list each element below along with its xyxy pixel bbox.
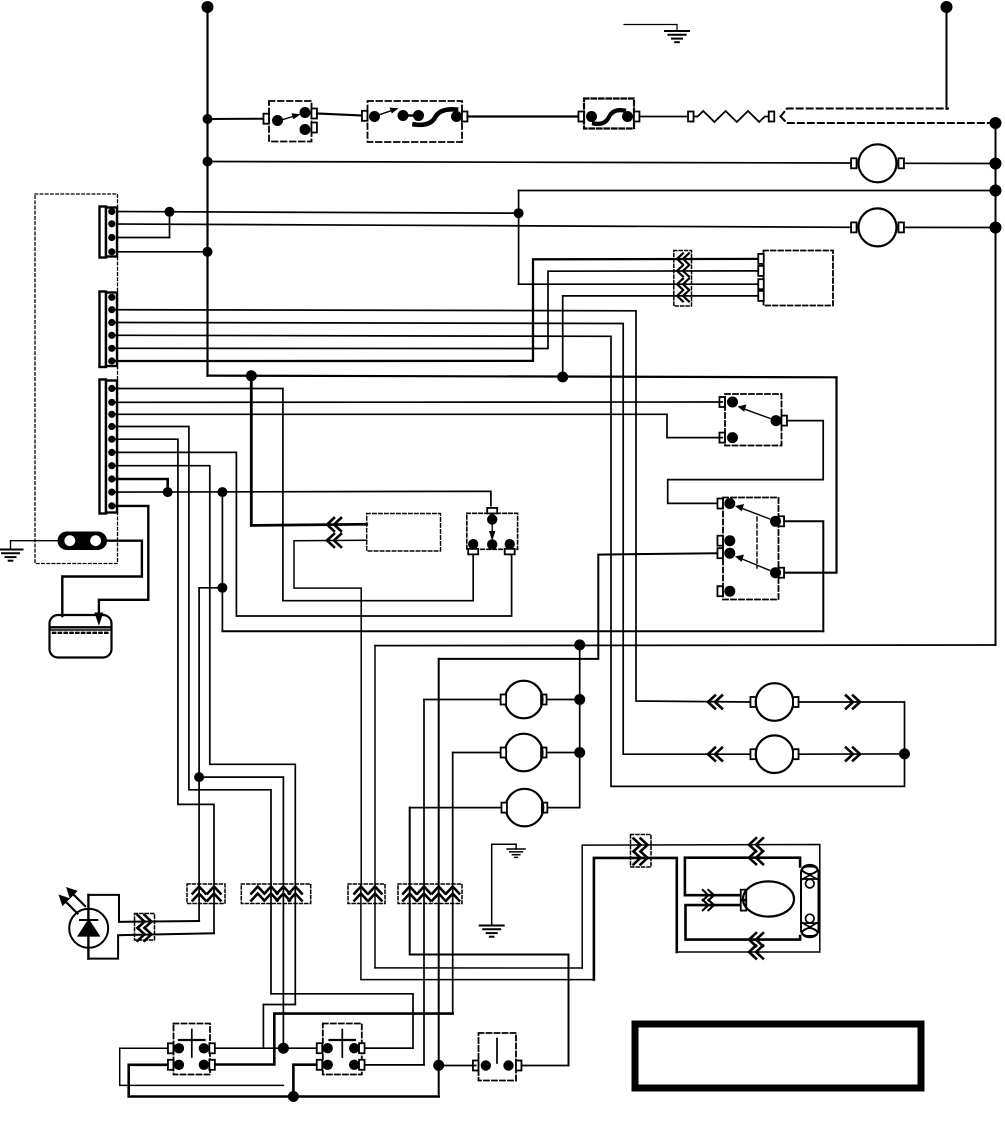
lamp L1 [424,681,580,719]
connector box CN5 (pair) [348,884,385,904]
node top right dot [941,1,953,13]
wire strip1 pin4 to bus [112,251,208,253]
wire v375 drop [374,646,376,968]
lamp L2 [453,734,580,772]
connector strip J3 [100,380,118,514]
wire B3 right [522,1065,569,1067]
connector strip J1 [100,207,118,258]
fuse F1 [58,532,108,551]
wire strip2 pin4 loop [112,335,905,786]
circuit breaker CB1 [578,99,639,129]
node dot pin9 drop [217,487,227,497]
wire trio3 to B1UR overpass [263,1005,295,1049]
wire B3 left [439,1065,476,1067]
wire lamp3 left drop [410,808,569,1066]
wire S4 right contact down to headlight line [784,521,823,631]
wire CB1 to resistor [640,116,689,118]
switch B1 [168,1024,215,1075]
lamp L3 [410,789,580,827]
connector box CN4 (trio) [241,884,310,904]
node bus junction motor A row [203,157,213,167]
wire fuse to tank [62,541,142,616]
wire bus horizontal 377 [208,376,837,378]
connector box CN3 (LED pair) [187,884,225,904]
wire pin9 chain drop [221,492,223,631]
wire row y190 [519,190,996,192]
wire lamp feed y645 [375,644,996,647]
tank washer reservoir [50,615,112,658]
control module dotted boundary [35,194,118,564]
wire A thin loop [582,845,820,969]
ground G4 small [515,844,517,849]
wire lamp2 left drop [452,753,454,1014]
node dot pin1/pin3 riser [165,207,175,217]
wire strip3 pin3 to S3 lower [112,414,722,437]
wire bus drop to switch2 lower [786,377,837,572]
switch B3 [473,1033,522,1081]
wire connector row4 [563,295,759,297]
wire B2LL riser thick [293,1065,319,1097]
wire strip2 pin5 to connector row2 [112,271,759,349]
switch S2 light switch with breaker [362,101,468,142]
wire strip3 pin4 to conn B2 [112,427,271,994]
wire B thick [594,858,677,980]
wire hour meter pin2 [294,540,367,884]
blower motor ellipse [741,890,747,900]
relay K1 [467,508,518,554]
wire strip2 pin6 to connector row1 [112,259,759,361]
node dot trio2 junction [278,1043,289,1054]
wire B1LL loop thick [129,1065,439,1097]
wire B west leg [361,884,594,980]
switch B2 [317,1024,365,1075]
wire pin3 riser [169,212,171,238]
node dot at 518 [514,208,524,218]
node dot 251 [246,370,257,381]
wire B2LR to lamp1 drop [365,1064,425,1066]
wire LED conn left vertical [198,777,200,921]
wire B2UR short [365,1047,414,1049]
wire bus to switch S1 [208,118,264,120]
wire lamp1 left drop [423,700,425,1065]
wire headlight feed long [222,630,823,632]
node dot 580 [574,639,585,650]
connector CN1 inline chevrons [674,251,692,307]
connector box CN6 (quad) [398,884,462,904]
wire 251 drop to hour meter [251,376,366,526]
node right bus dots [990,117,1002,129]
wire strip1 pin1 [112,212,519,214]
wire right bus vertical [995,123,997,645]
node dot pin4 bus [203,247,213,257]
wire B1LR to lamp2 drop thick [213,1014,453,1065]
wire strip3 pin8 [112,479,168,492]
fan housing [801,867,819,937]
connector strip J2 [100,292,118,368]
wire strip3 pin7 to conn B3 [112,466,295,1005]
node dot 587 [217,583,227,593]
hour meter box M2 [367,514,441,552]
wire B1UR to B2UL [213,1047,319,1049]
wire strip2 pin2 to lamp R1 [112,310,749,702]
fan icon bottom [802,914,818,937]
module M1 dashed box with pins [758,251,833,306]
wire LED bottom loop [88,933,214,958]
wire strip1 pin2 to motor B [112,224,851,227]
wire B1UL loop [120,1048,284,1085]
wire relay pin left to strip3 pin1 [112,389,473,601]
LED lamp symbol [69,895,108,959]
ground G1 top [624,24,677,26]
lamp R1 [708,683,905,721]
wire main left bus vertical [206,7,208,376]
node dot on thick loop [288,1091,299,1102]
wire strip3 pin5 to LED conn [112,439,214,933]
node bus junction switch row [203,114,213,124]
wire motor lower loop [686,905,801,940]
wire S2 to CB1 [468,115,579,117]
motor A circle [851,144,995,182]
motor B circle [851,208,995,246]
wire strip2 pin3 to lamp R2 [112,323,749,755]
arrow into tank [94,613,103,626]
ground G2 [0,550,23,561]
wire relay pin right to strip3 pin6 [112,452,512,616]
resistor R1 glow plug [694,111,769,122]
wire S4 feed from interchange [439,553,718,659]
LED light arrows [59,887,86,914]
wire trio1 to B2UR overpass [271,994,413,1048]
wire strip3 pin9 to relay coil [112,491,491,505]
wire v438 long drop [438,659,440,1097]
wire v518 [518,191,520,285]
node dot 777 [194,772,204,782]
wire motor upper loop [685,858,800,896]
node dot B3 left [433,1060,444,1071]
wire S1 to S2 [317,114,362,116]
connector CN7 LED dotted box [135,914,155,941]
node dot lamp2 [574,747,585,758]
fan icon top [802,865,818,888]
wire branch west [199,588,222,777]
node dot 562 [557,372,568,383]
wire ground to fuse [11,540,58,542]
wire connector row3 [519,283,759,285]
wire branch to conn B2 chain [199,777,283,1048]
wire top right drop [946,7,948,109]
wire A west leg [375,967,582,969]
wire strip3 pin10 to tank [99,506,148,613]
node dot right lamp join [899,748,910,759]
node battery feed top dot [202,1,214,13]
wire harness capsule dashed [781,109,949,117]
node dot lamp1 [574,694,585,705]
switch S1 key switch [263,101,317,142]
connector CN2 dotted box [631,835,652,868]
wire bus to motor A [208,162,852,164]
node dot pin8 junction [163,487,173,497]
wire LED top loop [88,895,199,922]
wire S3 out loop to S4 [668,421,824,504]
lamp R2 [708,735,905,773]
ground G3 with riser [492,844,516,925]
wire lamp chain vertical [579,645,581,808]
wire strip3 pin2 to S3 [112,401,722,403]
